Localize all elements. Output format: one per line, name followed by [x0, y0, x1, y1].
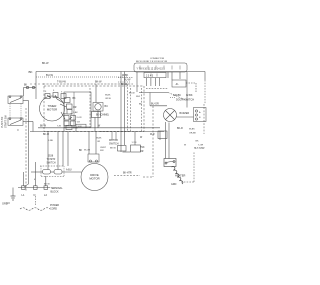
- svg-text:DOOR SWITCH: DOOR SWITCH: [176, 99, 194, 102]
- svg-text:-D-: -D-: [175, 82, 179, 86]
- svg-text:T-BU-W: T-BU-W: [57, 81, 67, 84]
- svg-text:OR-BK: OR-BK: [189, 133, 196, 135]
- svg-text:GR-BK: GR-BK: [173, 94, 181, 97]
- svg-text:1 2 3: 1 2 3: [132, 142, 138, 144]
- svg-text:BK-R: BK-R: [177, 127, 183, 130]
- svg-text:SWITCH: SWITCH: [109, 143, 119, 146]
- svg-text:W-OR: W-OR: [84, 150, 90, 152]
- svg-text:BK-HTR: BK-HTR: [123, 173, 132, 175]
- svg-text:W: W: [71, 114, 73, 116]
- svg-text:W-BK: W-BK: [189, 129, 195, 131]
- svg-text:OR: OR: [140, 151, 144, 153]
- svg-text:F-BU: F-BU: [48, 140, 54, 142]
- svg-text:W-R: W-R: [136, 96, 141, 98]
- svg-text:BK: BK: [79, 150, 83, 152]
- svg-text:BU-W: BU-W: [46, 73, 53, 77]
- svg-text:OR: OR: [97, 141, 101, 143]
- svg-text:BK: BK: [29, 70, 33, 74]
- svg-text:HEATER: HEATER: [175, 174, 185, 178]
- svg-text:CORD: CORD: [50, 207, 57, 210]
- svg-text:MOTOR: MOTOR: [89, 176, 99, 180]
- svg-text:BK: BK: [24, 85, 28, 87]
- svg-text:CONNECTOR: CONNECTOR: [150, 58, 164, 60]
- svg-text:OR-W: OR-W: [105, 98, 111, 100]
- svg-text:GRD: GRD: [171, 183, 177, 186]
- svg-text:T-R: T-R: [77, 122, 81, 124]
- svg-text:BLOCK: BLOCK: [51, 190, 60, 193]
- svg-text:BU-W: BU-W: [124, 79, 131, 82]
- svg-text:TNK: TNK: [140, 147, 145, 149]
- svg-text:A-BU: A-BU: [66, 169, 72, 172]
- svg-text:W-R: W-R: [150, 134, 155, 136]
- svg-text:W-BK: W-BK: [96, 138, 102, 140]
- svg-text:BK-W: BK-W: [42, 62, 49, 65]
- svg-text:1-BK: 1-BK: [73, 112, 78, 114]
- svg-text:BK: BK: [73, 98, 77, 100]
- svg-text:T-W: T-W: [57, 126, 61, 128]
- svg-text:W-BK: W-BK: [105, 95, 111, 97]
- svg-text:BU-W: BU-W: [129, 93, 135, 95]
- svg-text:2 3 4 5: 2 3 4 5: [146, 76, 154, 78]
- svg-text:OR: OR: [73, 107, 77, 109]
- svg-text:BK-W: BK-W: [40, 126, 47, 128]
- svg-text:T-OR: T-OR: [198, 145, 204, 147]
- svg-text:CENT: CENT: [100, 147, 107, 149]
- svg-text:BK-W: BK-W: [110, 148, 117, 150]
- svg-text:Y 7 8 9 10 11 12 13 14 15 1: Y 7 8 9 10 11 12 13 14 15 1: [137, 68, 166, 70]
- svg-text:BK-W: BK-W: [95, 81, 102, 84]
- svg-text:BK-W: BK-W: [43, 134, 50, 136]
- svg-text:2-OR: 2-OR: [77, 117, 82, 119]
- svg-text:START SW: START SW: [4, 115, 7, 128]
- svg-text:BUZZER: BUZZER: [180, 112, 190, 115]
- svg-text:3538: 3538: [48, 156, 54, 158]
- svg-text:HI-T-STAT: HI-T-STAT: [194, 147, 205, 150]
- svg-text:GRD: GRD: [2, 202, 8, 206]
- svg-text:BU W OR BK Y R GY BU W OR: BU W OR BK Y R GY BU W OR: [136, 61, 168, 63]
- svg-text:MOTOR: MOTOR: [47, 108, 57, 112]
- svg-text:BU: BU: [105, 105, 109, 108]
- svg-text:W-BK: W-BK: [122, 74, 129, 77]
- svg-text:BU-OR: BU-OR: [151, 103, 159, 106]
- svg-text:BK-W: BK-W: [44, 184, 51, 186]
